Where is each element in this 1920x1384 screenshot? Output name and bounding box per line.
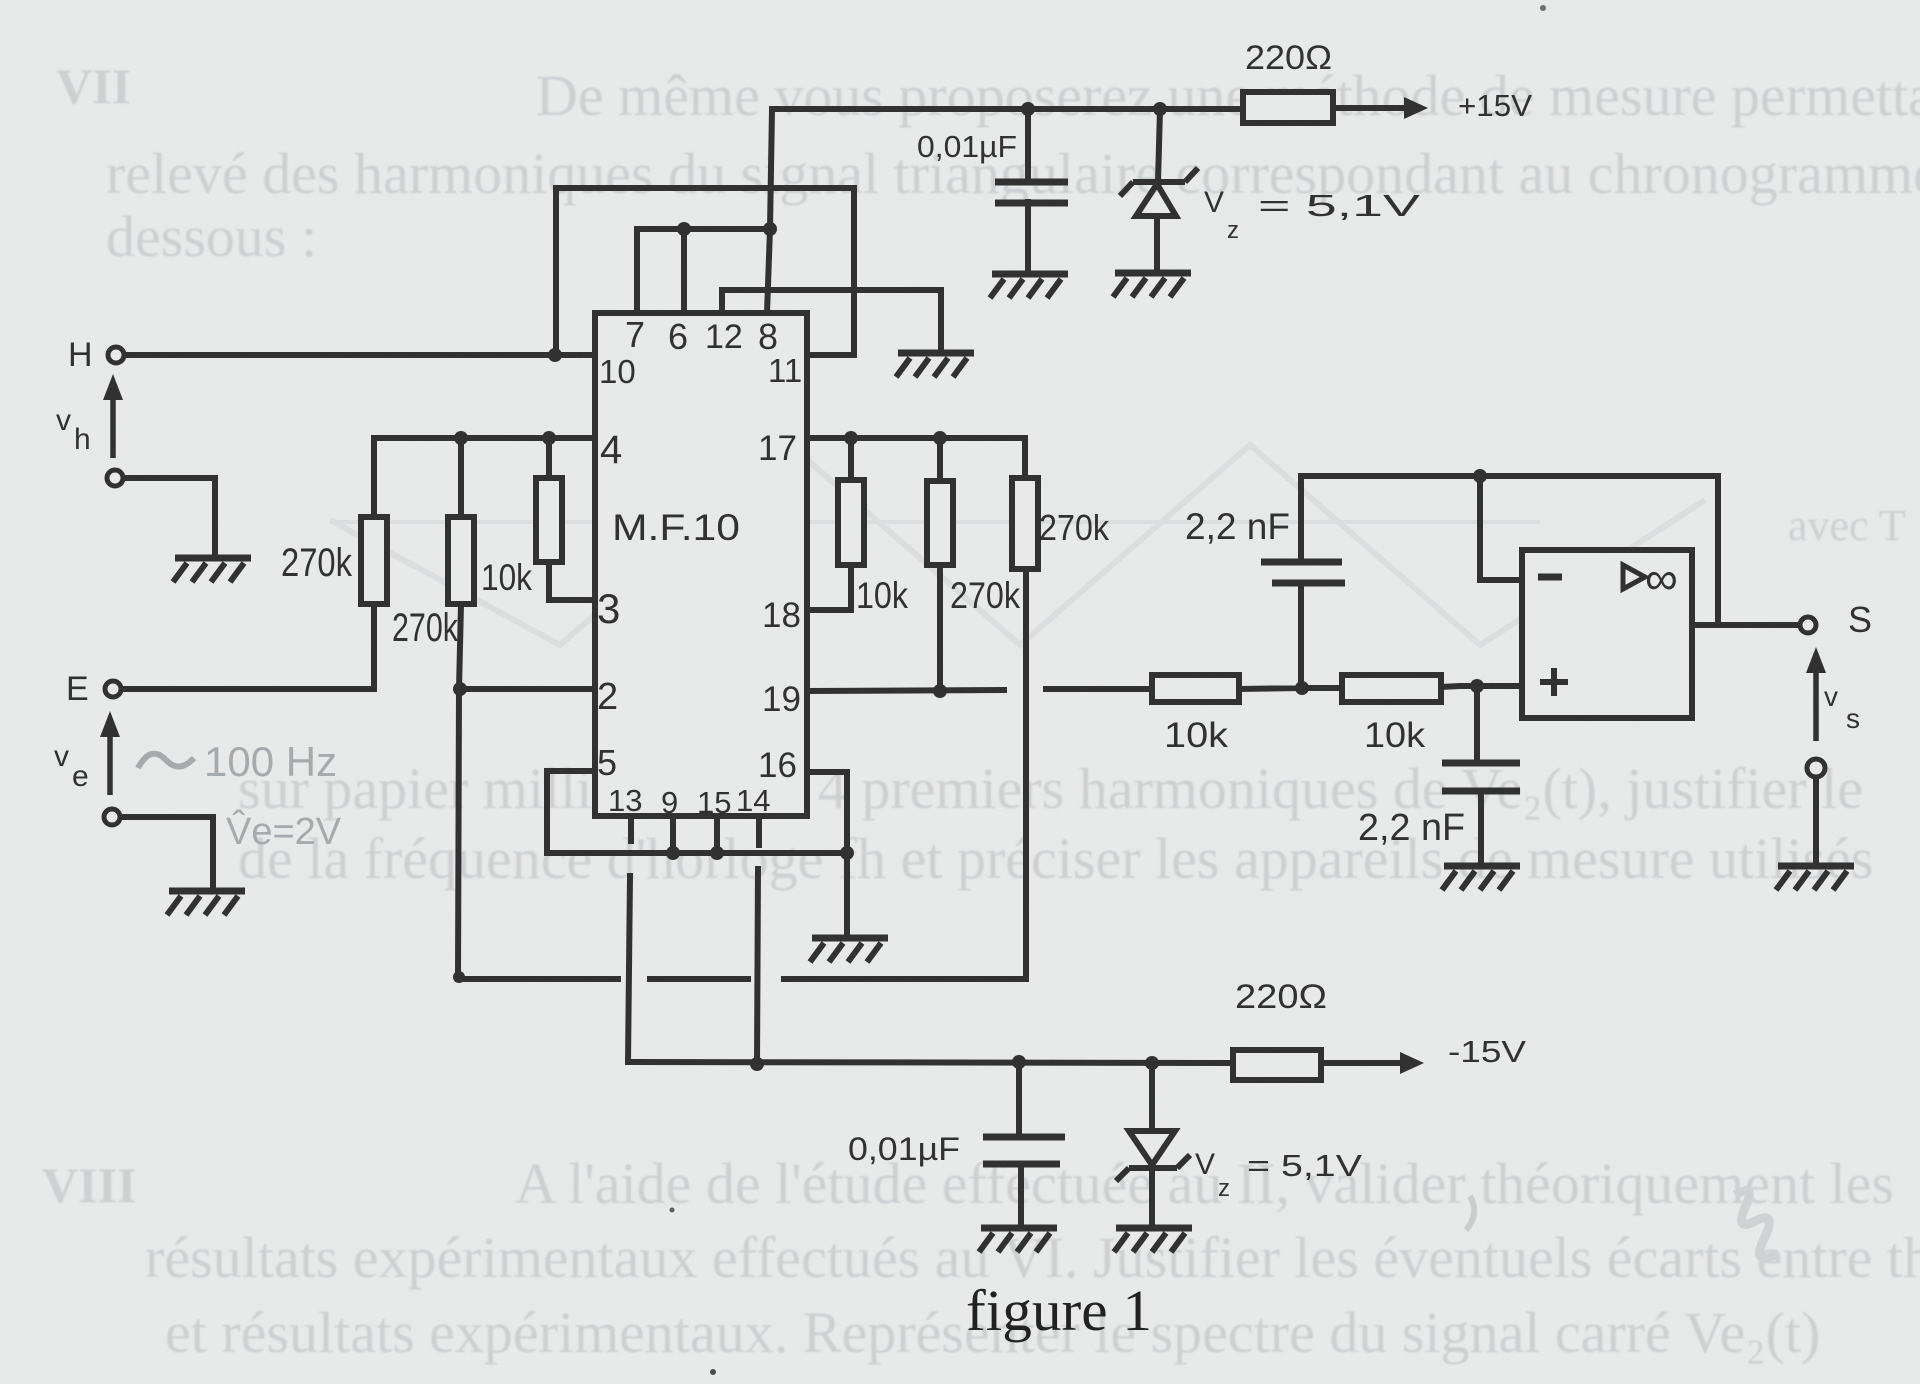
terminal S low (1807, 759, 1825, 777)
node rail cap (1012, 1055, 1026, 1069)
wire pin 4 line (374, 435, 595, 441)
node pin4 line b (542, 431, 556, 445)
resistor 220 bottom (1233, 1050, 1321, 1080)
ground vh (173, 558, 251, 582)
wire V+ vertical to pin 8 (767, 109, 772, 313)
terminal E (105, 681, 121, 697)
wire 0.01uF top vertical (1025, 109, 1031, 271)
node bus pin8 (763, 222, 777, 236)
resistor 10k mid 2 (1342, 675, 1441, 702)
node top rail cap (1021, 102, 1035, 116)
resistor 270k right leads (937, 438, 943, 691)
wire vh lower terminal to ground (123, 478, 215, 552)
wire pin 5 link (547, 771, 847, 853)
wire +15V rail right of resistor (1331, 105, 1404, 111)
terminal vh low (107, 470, 123, 486)
node top rail zener (1153, 102, 1167, 116)
wire S lower terminal to ground (1813, 777, 1819, 862)
chip MF10 (595, 313, 807, 816)
terminal S (1800, 617, 1816, 633)
wire pin 14 vertical (757, 814, 759, 1064)
wire zener bottom vertical (1149, 1064, 1155, 1224)
arrow ve (107, 733, 113, 795)
node rail pin14 (750, 1057, 764, 1071)
wire op-amp plus node to cap 2 (1477, 686, 1481, 863)
wire op-amp minus input (1480, 476, 1522, 580)
wire pin 13 vertical (628, 814, 631, 1062)
arrow +15V (1404, 97, 1428, 119)
ground cap top (990, 274, 1068, 298)
resistor 270k right 3 (1012, 478, 1038, 569)
wire H to pin 11 link (556, 188, 854, 355)
wire pin 15 stub (714, 816, 720, 853)
arrow vh (110, 396, 116, 458)
ground cap 2 (1442, 866, 1520, 890)
resistor 270k left 2 (448, 517, 474, 604)
node line 5-16 a (666, 846, 680, 860)
node pin19 resistor (933, 684, 947, 698)
wire -15V rail (628, 1062, 1233, 1063)
node corner bottom run (453, 971, 465, 983)
wire pin 19 line (807, 686, 1522, 691)
ground pin12 (896, 353, 974, 377)
ground S (1776, 866, 1854, 890)
ground zener bottom (1114, 1228, 1192, 1252)
node plus input (1470, 679, 1484, 693)
node H line (548, 348, 562, 362)
wire pin 16 link (807, 772, 847, 934)
op-amp U1 (1522, 550, 1692, 718)
pencil 100Hz (138, 754, 194, 768)
wire pin 17 line (807, 438, 1025, 478)
wire E input (121, 604, 374, 689)
pencil smudge scribble (1735, 1191, 1779, 1258)
ground cap bottom (979, 1228, 1057, 1252)
resistor 10k mid 1 (1152, 675, 1239, 702)
wire pin 9 stub (670, 816, 676, 853)
node feedback minus (1473, 469, 1487, 483)
ground pin16 (810, 938, 888, 962)
wire 2.2nF cap 1 vertical (1298, 476, 1304, 688)
wire pin 12 to ground (722, 290, 941, 350)
resistor 10k right (838, 480, 864, 565)
wire -15V rail right of resistor (1321, 1060, 1400, 1066)
node pin4 line a (454, 431, 468, 445)
node pin2 (453, 682, 467, 696)
zener diode bottom Vz 5.1V (1116, 1131, 1190, 1181)
capacitor 0.01uF top (995, 182, 1068, 203)
speck marks (670, 1208, 675, 1213)
ghost waveform bleed (330, 445, 1705, 645)
resistor 270k left (361, 517, 387, 604)
wire ve lower terminal to ground (120, 817, 213, 886)
ground ve (167, 891, 245, 915)
resistor 10k left leads (546, 438, 552, 600)
node cap1 10k (1295, 681, 1309, 695)
node line 5-16 b (710, 846, 724, 860)
resistor 270k left leads (371, 438, 377, 689)
resistor 270k-2 leads (458, 438, 461, 977)
zener diode top Vz 5.1V (1120, 168, 1198, 216)
arrow vs (1813, 671, 1819, 741)
ground zener top (1113, 273, 1191, 297)
terminal H (108, 347, 124, 363)
node bus pin6 (677, 222, 691, 236)
capacitor 0.01uF bottom (983, 1137, 1065, 1164)
node rail zener (1145, 1056, 1159, 1070)
capacitor 2.2nF plus input (1442, 763, 1520, 791)
resistor 10k right leads (807, 438, 851, 610)
wire feedback bottom run (458, 569, 1026, 979)
terminal ve low (104, 809, 120, 825)
wire 0.01uF bottom vertical (1019, 1062, 1021, 1224)
wire zener top vertical (1157, 109, 1160, 270)
wire pin 3 stub (549, 597, 595, 603)
resistor 270k right 2 (927, 481, 953, 565)
wire +15V rail (774, 106, 1243, 112)
node line 5-16 c (840, 846, 854, 860)
resistor 10k left (536, 478, 562, 562)
wire pin 2 line (460, 686, 595, 692)
wire feedback top line (1301, 476, 1718, 625)
wire pins 6-7 bus (637, 229, 770, 313)
node pin17 line a (844, 431, 858, 445)
capacitor 2.2nF feedback (1261, 562, 1345, 583)
node pin17 line b (933, 431, 947, 445)
wire clock H line (124, 352, 595, 358)
wire op-amp output (1692, 622, 1799, 628)
arrow -15V (1400, 1052, 1424, 1074)
resistor 220 top (1243, 92, 1333, 123)
